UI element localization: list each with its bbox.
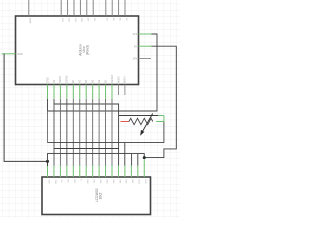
top pin labels bbox=[29, 18, 127, 24]
svg-text:RW: RW bbox=[73, 180, 75, 183]
svg-text:3V3: 3V3 bbox=[133, 33, 138, 36]
wire cross link pin2 column to pin12 column bbox=[54, 148, 119, 150]
wire Arduino pin5 down to LCD RW bbox=[72, 99, 74, 166]
IC U1 Arduino Uno (Rev3) bbox=[16, 16, 139, 85]
svg-text:GND: GND bbox=[46, 77, 49, 83]
resistor zigzag body bbox=[129, 118, 153, 124]
light arrow bbox=[142, 114, 153, 134]
bottom pin labels bbox=[46, 74, 126, 83]
wire green tail near photoresistor join bbox=[158, 115, 164, 117]
IC U2 LCD 16x2 body bbox=[42, 177, 151, 215]
wire Arduino pin10 down to LCD DB3 bbox=[105, 99, 107, 166]
LCD pin labels bbox=[47, 180, 146, 186]
wire drop to LCD pin14 DB7 bbox=[131, 154, 133, 166]
pin VIN (right side, unconnected stub) bbox=[133, 58, 151, 61]
wire Arduino pin6 down to LCD E bbox=[79, 99, 81, 166]
wire Arduino pin8 down to LCD DB1 bbox=[92, 99, 94, 166]
svg-text:MISO: MISO bbox=[117, 77, 120, 83]
svg-text:GND: GND bbox=[17, 53, 23, 56]
svg-text:D1/TX: D1/TX bbox=[59, 76, 62, 83]
svg-text:VO: VO bbox=[60, 180, 62, 183]
pin right (connected, green) bbox=[156, 121, 164, 123]
photoresistor R1 bbox=[121, 114, 164, 136]
svg-text:VIN: VIN bbox=[133, 58, 137, 61]
svg-text:VDD: VDD bbox=[54, 180, 56, 185]
wire GND: from Arduino GND pin left, down, to LCD VSS bbox=[4, 54, 47, 166]
pin 5V (right side) bbox=[134, 45, 152, 48]
svg-text:MOSI: MOSI bbox=[124, 76, 127, 83]
wire from Arduino pin2 to photoresistor right / LCD pin16 bbox=[54, 99, 164, 166]
wire drop to LCD pin15 LED+ bbox=[137, 154, 139, 166]
wire pin1 column extension bbox=[47, 111, 49, 143]
pin GND (left side, connected) bbox=[2, 53, 23, 56]
wire GND branch to LCD pin16 node bbox=[48, 154, 145, 162]
wire Arduino pin11 down to LCD DB4 bbox=[111, 99, 113, 166]
wire 3V3 net: right pin down and across to Arduino bottom pin 1 bbox=[48, 34, 158, 111]
pin AREF (top single) bbox=[28, 0, 30, 16]
wire Arduino pin4 down to LCD RS bbox=[66, 99, 68, 166]
svg-text:AREF: AREF bbox=[29, 18, 32, 24]
svg-text:5V: 5V bbox=[134, 45, 137, 48]
pin 3V3 (right side) bbox=[133, 33, 152, 36]
junction dot at LCD pin16 node bbox=[143, 156, 146, 159]
junction dot GND node bbox=[46, 160, 49, 163]
wire Arduino pin9 down to LCD DB2 bbox=[98, 99, 100, 166]
svg-text:RESET: RESET bbox=[111, 74, 114, 83]
wire Arduino pin7 down to LCD DB0 bbox=[85, 99, 87, 166]
wire 5V net: right pin down to LCD LED+ bbox=[144, 46, 176, 157]
svg-text:LED+: LED+ bbox=[138, 180, 140, 186]
svg-text:16x2: 16x2 bbox=[99, 192, 103, 199]
svg-text:(Rev3): (Rev3) bbox=[85, 45, 89, 55]
wire Arduino pin2 straight down to LCD VDD bbox=[53, 104, 55, 166]
bottom unconnected pin stubs (gray) bbox=[118, 85, 124, 96]
wire Arduino pin3 down to LCD VO bbox=[59, 99, 61, 166]
pin left (unconnected, red) bbox=[121, 121, 130, 123]
svg-text:VSS: VSS bbox=[47, 180, 49, 185]
wire drop to LCD pin13 DB6 bbox=[124, 143, 126, 166]
pins D13..D8 top group bbox=[61, 0, 93, 16]
pins D7..D4 top group bbox=[106, 0, 125, 16]
wire cross link from pin1 column to photoresistor column bbox=[48, 142, 164, 144]
LCD connected pin stubs (green) bbox=[48, 159, 145, 177]
svg-text:D0/RX: D0/RX bbox=[66, 75, 69, 83]
svg-text:LED-: LED- bbox=[144, 180, 146, 185]
bottom connected pin stubs (green) bbox=[48, 85, 113, 100]
